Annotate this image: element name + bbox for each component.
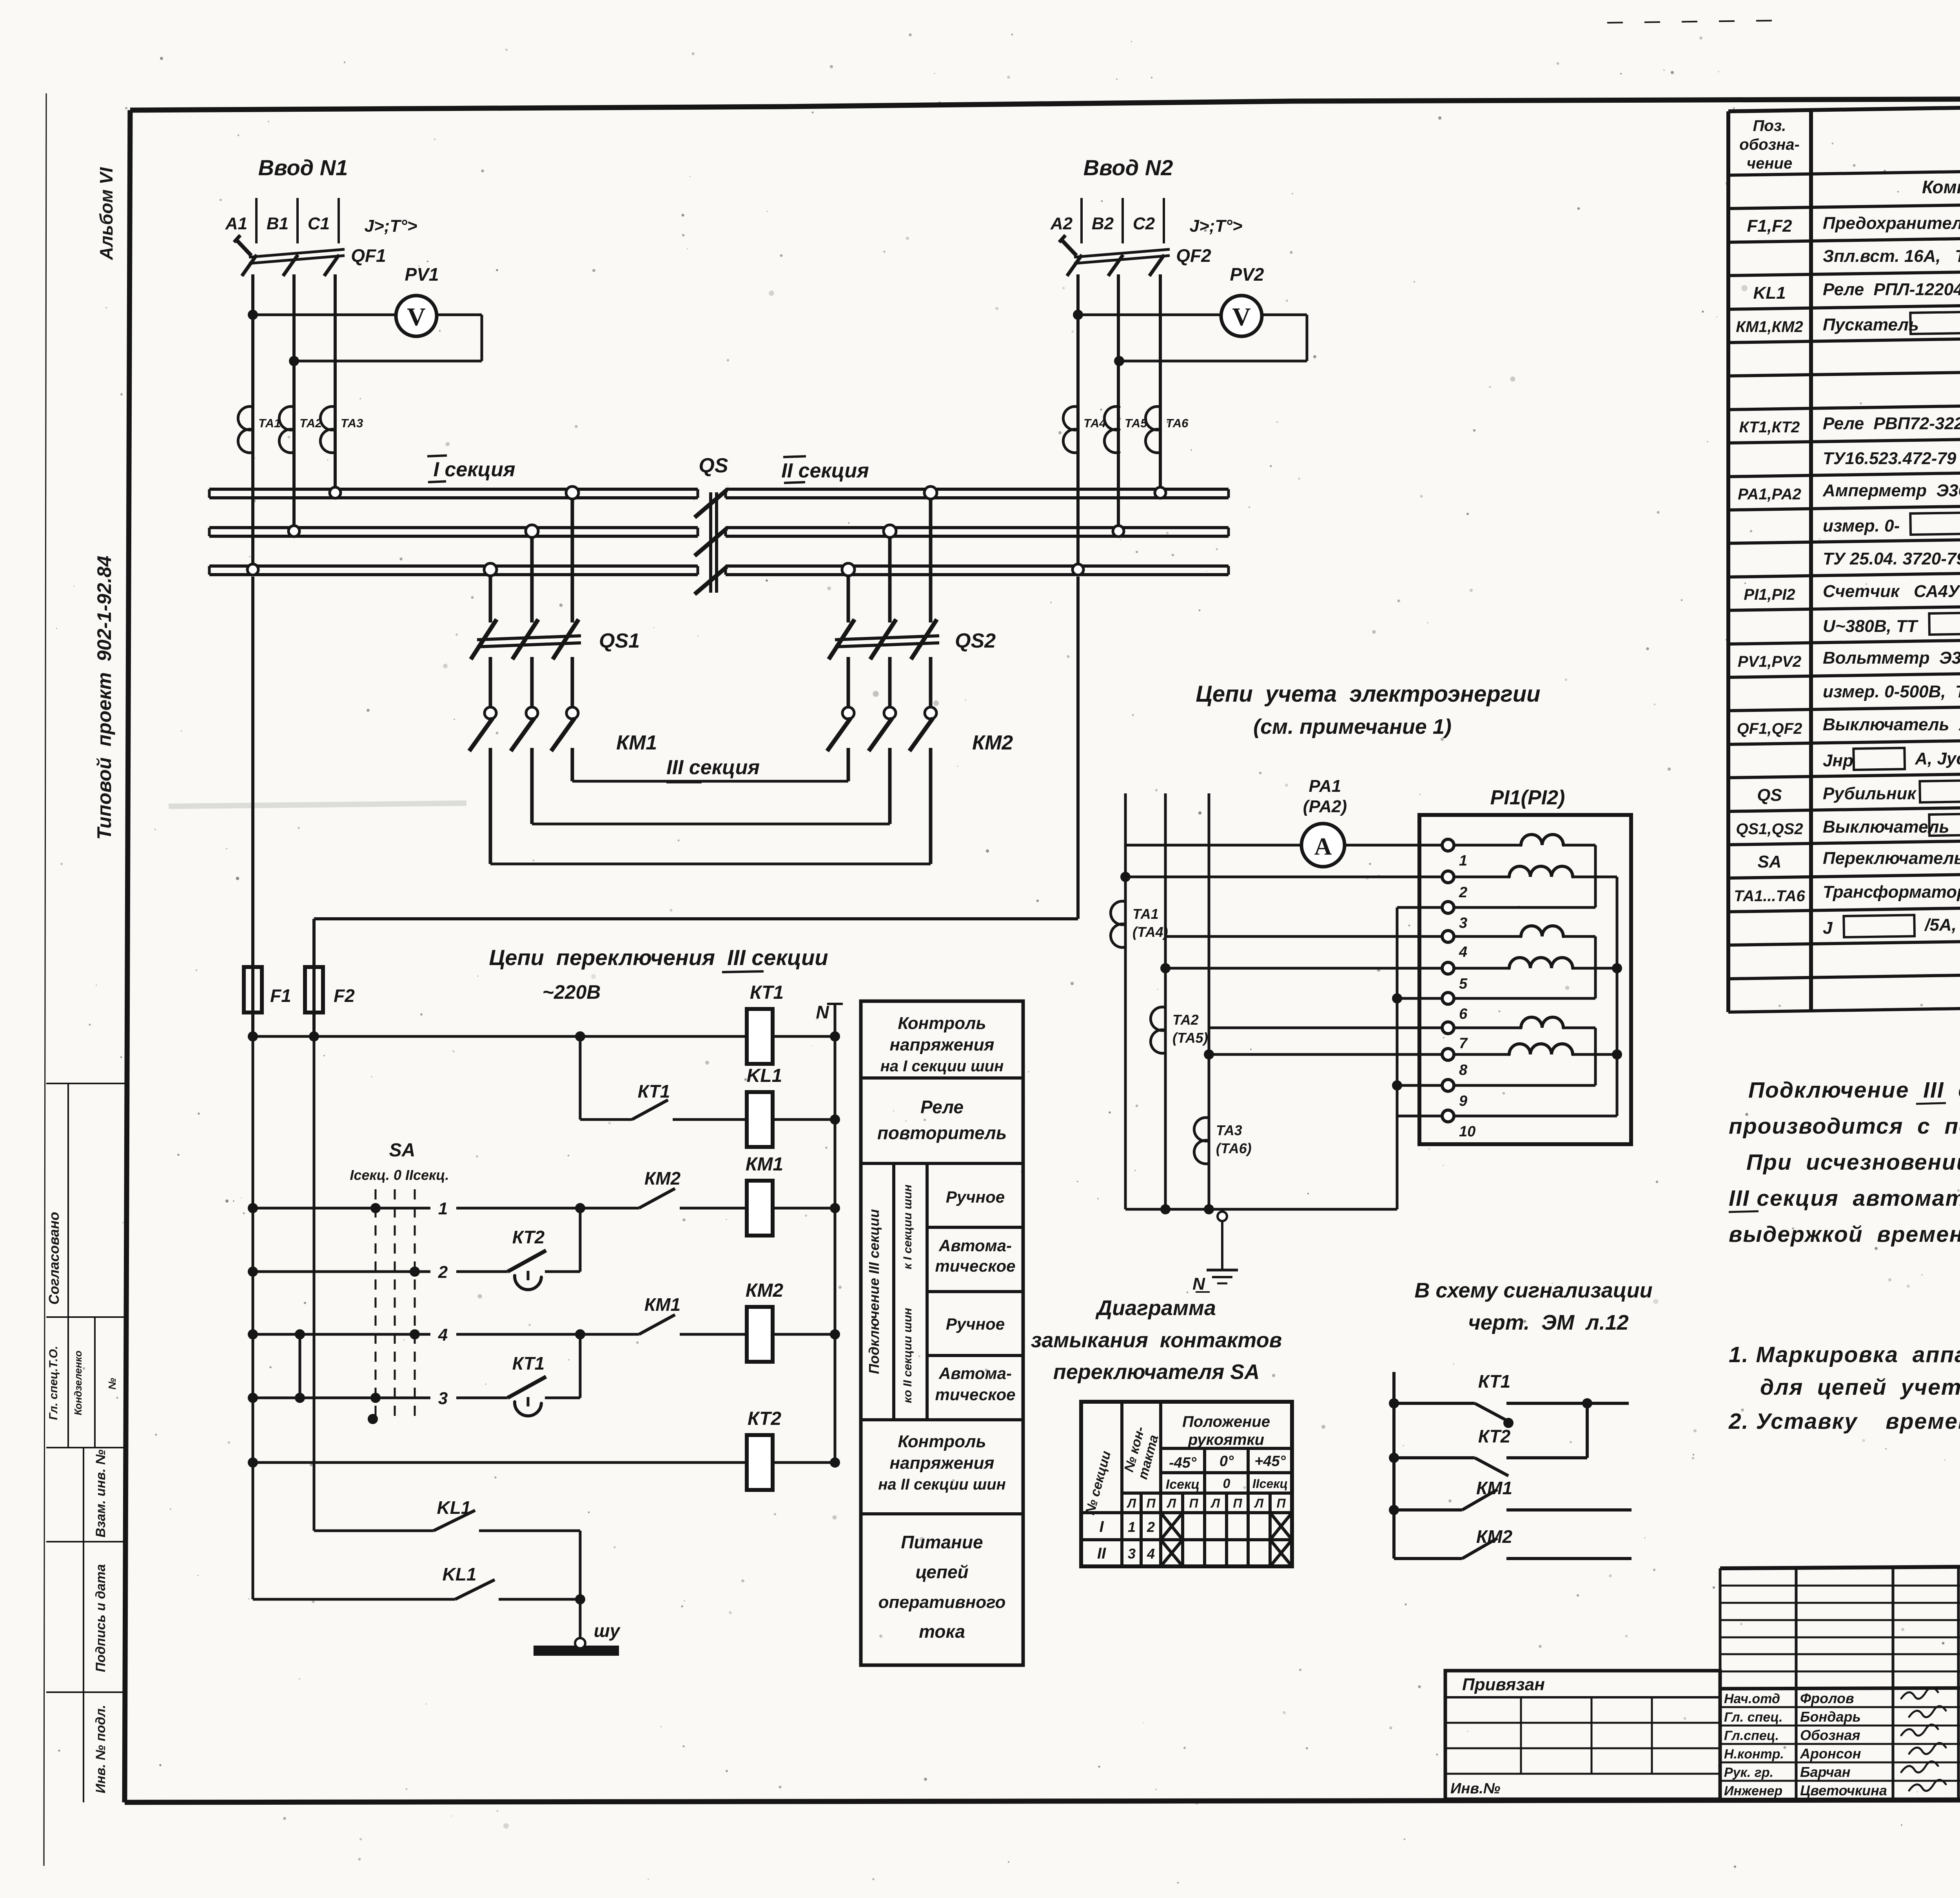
svg-text:KL1: KL1 <box>1753 283 1786 303</box>
svg-text:КТ1: КТ1 <box>750 982 784 1003</box>
svg-text:Амперметр Э365, кл. 1,5; пр: Амперметр Э365, кл. 1,5; предел <box>1822 481 1960 500</box>
svg-text:Цветочкина: Цветочкина <box>1800 1782 1887 1798</box>
svg-text:Ручное: Ручное <box>946 1315 1005 1333</box>
svg-text:QS: QS <box>1757 786 1782 805</box>
svg-text:КТ2: КТ2 <box>1478 1426 1511 1446</box>
svg-text:KL1: KL1 <box>437 1497 471 1518</box>
svg-text:V: V <box>407 303 426 331</box>
svg-text:1: 1 <box>438 1199 448 1218</box>
svg-text:Контроль: Контроль <box>898 1432 986 1451</box>
svg-text:Комплектное устройство: Комплектное устройство <box>1922 177 1960 197</box>
svg-text:обозна-: обозна- <box>1739 136 1800 153</box>
svg-text:QS: QS <box>699 454 728 477</box>
svg-text:С1: С1 <box>308 214 330 233</box>
svg-text:1. Маркировка аппаратов: 1. Маркировка аппаратов <box>1729 1342 1960 1367</box>
svg-text:Питание: Питание <box>901 1532 983 1552</box>
svg-text:Реле РВП72-3222-00УХЛ4, U~2: Реле РВП72-3222-00УХЛ4, U~220В, <box>1823 414 1960 433</box>
svg-text:2: 2 <box>1459 884 1467 901</box>
svg-text:Диаграмма: Диаграмма <box>1095 1296 1216 1320</box>
svg-text:4: 4 <box>438 1325 448 1345</box>
svg-text:(ТА6): (ТА6) <box>1216 1140 1252 1156</box>
svg-text:шу: шу <box>594 1620 621 1641</box>
svg-text:(ТА4): (ТА4) <box>1132 924 1168 940</box>
svg-text:Рук. гр.: Рук. гр. <box>1724 1765 1773 1780</box>
svg-text:Л: Л <box>1127 1496 1136 1510</box>
svg-text:(РА2): (РА2) <box>1303 797 1347 816</box>
svg-text:Jнр: Jнр <box>1823 751 1853 770</box>
svg-text:Ввод N2: Ввод N2 <box>1083 155 1173 180</box>
svg-text:Л: Л <box>1167 1496 1176 1510</box>
svg-text:производится с помощью пере: производится с помощью переключателя SA. <box>1729 1114 1960 1139</box>
svg-text:В схему сигнализации: В схему сигнализации <box>1414 1279 1652 1302</box>
svg-text:Переключатель УП5311-С225У3,ТУ: Переключатель УП5311-С225У3,ТУ16.524.074… <box>1823 849 1960 868</box>
svg-text:напряжения: напряжения <box>890 1453 995 1473</box>
svg-text:V: V <box>1232 303 1251 331</box>
svg-text:рукоятки: рукоятки <box>1188 1431 1264 1448</box>
svg-text:С2: С2 <box>1133 214 1155 233</box>
svg-text:QS1,QS2: QS1,QS2 <box>1736 820 1803 838</box>
svg-text:Подпись и дата: Подпись и дата <box>93 1564 108 1672</box>
svg-text:В2: В2 <box>1092 214 1114 233</box>
svg-text:F2: F2 <box>334 985 355 1006</box>
svg-text:Инв. № подл.: Инв. № подл. <box>93 1705 108 1793</box>
svg-text:Положение: Положение <box>1182 1413 1270 1430</box>
svg-text:тическое: тическое <box>935 1385 1015 1404</box>
svg-text:Л: Л <box>1210 1496 1220 1510</box>
svg-text:Привязан: Привязан <box>1462 1675 1545 1694</box>
svg-text:РА1: РА1 <box>1309 777 1341 796</box>
svg-text:КМ1: КМ1 <box>1476 1478 1512 1498</box>
svg-text:Гл. спец.: Гл. спец. <box>1724 1710 1783 1725</box>
svg-text:PI1,PI2: PI1,PI2 <box>1744 586 1795 603</box>
svg-text:Барчан: Барчан <box>1800 1764 1851 1780</box>
svg-text:Ввод N1: Ввод N1 <box>258 155 348 180</box>
svg-text:Контроль: Контроль <box>898 1014 986 1033</box>
svg-text:КТ1,КТ2: КТ1,КТ2 <box>1739 419 1800 436</box>
svg-text:ТА1: ТА1 <box>1132 906 1159 922</box>
svg-text:ТА3: ТА3 <box>341 416 363 430</box>
svg-text:10: 10 <box>1459 1123 1475 1140</box>
svg-text:переключателя SA: переключателя SA <box>1053 1360 1260 1384</box>
svg-text:Вольтметр Э365, кл. 1,5, пре: Вольтметр Э365, кл. 1,5, предел <box>1823 648 1960 668</box>
svg-text:Ручное: Ручное <box>946 1188 1005 1206</box>
svg-text:Счетчик СА4У-И672М, кл.2,: Счетчик СА4У-И672М, кл.2, <box>1823 582 1960 601</box>
svg-text:Реле РПЛ-12204, U~220В,ТУ16.5: Реле РПЛ-12204, U~220В,ТУ16.523554-78 <box>1823 280 1960 299</box>
svg-text:Автома-: Автома- <box>938 1364 1012 1383</box>
svg-text:П: П <box>1189 1496 1198 1510</box>
svg-text:F1,F2: F1,F2 <box>1747 216 1792 236</box>
svg-text:Iсекц: Iсекц <box>1166 1477 1200 1492</box>
svg-text:PI1(PI2): PI1(PI2) <box>1490 786 1565 809</box>
svg-text:В1: В1 <box>267 214 289 233</box>
svg-text:3: 3 <box>1459 915 1467 931</box>
svg-text:0°: 0° <box>1220 1453 1234 1470</box>
svg-text:U~380В, ТТ: U~380В, ТТ <box>1823 617 1922 636</box>
svg-text:J>;T°>: J>;T°> <box>365 216 417 236</box>
svg-text:I: I <box>1099 1518 1104 1535</box>
svg-text:4: 4 <box>1147 1546 1155 1562</box>
svg-text:для цепей учета электроэнер: для цепей учета электроэнергии Ввода N2. <box>1760 1375 1960 1400</box>
svg-text:замыкания контактов: замыкания контактов <box>1031 1328 1282 1352</box>
svg-text:КТ2: КТ2 <box>512 1227 545 1247</box>
svg-text:ТА3: ТА3 <box>1216 1122 1242 1138</box>
svg-text:П: П <box>1233 1496 1242 1510</box>
svg-text:Альбом VI: Альбом VI <box>96 167 116 260</box>
svg-text:PV1,PV2: PV1,PV2 <box>1738 653 1801 670</box>
svg-text:I секция: I секция <box>433 458 515 481</box>
svg-text:F1: F1 <box>270 985 291 1006</box>
svg-text:III секция: III секция <box>666 756 760 779</box>
svg-text:ТА2: ТА2 <box>299 416 322 430</box>
svg-text:QS2: QS2 <box>955 630 996 652</box>
svg-text:J>;T°>: J>;T°> <box>1190 216 1243 236</box>
svg-text:П: П <box>1146 1496 1156 1510</box>
svg-text:КМ1,КМ2: КМ1,КМ2 <box>1736 318 1803 336</box>
svg-text:КМ2: КМ2 <box>746 1280 783 1301</box>
svg-text:ко II секции шин: ко II секции шин <box>901 1308 914 1403</box>
svg-text:Гл. спец.Т.О.: Гл. спец.Т.О. <box>47 1346 60 1420</box>
svg-text:Нач.отд: Нач.отд <box>1724 1691 1780 1706</box>
svg-text:N: N <box>1192 1274 1205 1294</box>
svg-text:оперативного: оперативного <box>878 1593 1006 1612</box>
svg-text:напряжения: напряжения <box>890 1035 995 1054</box>
svg-text:KL1: KL1 <box>747 1065 782 1086</box>
svg-text:Инженер: Инженер <box>1724 1784 1782 1798</box>
svg-text:Поз.: Поз. <box>1753 117 1786 134</box>
svg-text:Iсекц. 0 IIсекц.: Iсекц. 0 IIсекц. <box>350 1167 449 1183</box>
svg-text:Подключение III секции к о: Подключение III секции к одной из секций… <box>1748 1078 1960 1103</box>
svg-text:Фролов: Фролов <box>1800 1690 1854 1706</box>
svg-text:QF2: QF2 <box>1176 245 1211 266</box>
svg-text:~220В: ~220В <box>543 981 601 1003</box>
svg-text:QF1: QF1 <box>351 245 386 266</box>
svg-text:ТА1...ТА6: ТА1...ТА6 <box>1734 887 1805 905</box>
svg-text:8: 8 <box>1459 1062 1468 1078</box>
svg-text:Рубильник: Рубильник <box>1823 784 1921 803</box>
svg-text:повторитель: повторитель <box>877 1123 1007 1143</box>
svg-text:КТ2: КТ2 <box>748 1408 781 1429</box>
svg-text:2. Уставку времени реле КТ: 2. Уставку времени реле КТ1 и КТ2 принят… <box>1728 1409 1960 1434</box>
svg-text:Зпл.вст. 16А, ТУ16.522.112-7: Зпл.вст. 16А, ТУ16.522.112-74 <box>1823 247 1960 266</box>
svg-text:Н.контр.: Н.контр. <box>1724 1747 1784 1762</box>
svg-text:Типовой проект 902-1-92.84: Типовой проект 902-1-92.84 <box>93 556 115 840</box>
svg-text:А, Jуст: А, Jуст <box>1910 749 1960 768</box>
svg-text:выдержкой времени на питани: выдержкой времени на питание от другой с… <box>1729 1222 1960 1247</box>
svg-text:измер. 0-: измер. 0- <box>1823 516 1900 535</box>
svg-text:на II секции шин: на II секции шин <box>878 1476 1006 1493</box>
svg-text:1: 1 <box>1128 1519 1136 1535</box>
svg-text:Инв.№: Инв.№ <box>1450 1780 1500 1797</box>
svg-text:№: № <box>106 1378 118 1390</box>
svg-text:Гл.спец.: Гл.спец. <box>1724 1728 1779 1743</box>
svg-text:II: II <box>1097 1545 1106 1562</box>
svg-text:III секция автоматически пер: III секция автоматически переключается с <box>1729 1186 1960 1211</box>
svg-text:черт. ЭМ л.12: черт. ЭМ л.12 <box>1468 1311 1628 1334</box>
svg-text:РА1,РА2: РА1,РА2 <box>1738 486 1801 503</box>
svg-text:QF1,QF2: QF1,QF2 <box>1737 720 1802 737</box>
svg-text:КМ1: КМ1 <box>616 731 657 754</box>
svg-text:КТ1: КТ1 <box>1478 1371 1511 1392</box>
svg-text:SA: SA <box>389 1140 416 1161</box>
svg-text:ТУ16.523.472-79: ТУ16.523.472-79 <box>1823 449 1956 468</box>
svg-text:Пускатель: Пускатель <box>1823 315 1919 334</box>
svg-text:SA: SA <box>1757 852 1781 871</box>
svg-text:ТА6: ТА6 <box>1166 416 1189 430</box>
svg-text:Автома-: Автома- <box>938 1236 1012 1255</box>
svg-text:КТ1: КТ1 <box>638 1081 670 1101</box>
svg-text:PV2: PV2 <box>1230 264 1264 285</box>
svg-text:КМ2: КМ2 <box>972 731 1013 754</box>
svg-text:к I секции шин: к I секции шин <box>901 1185 914 1269</box>
svg-text:П: П <box>1276 1496 1286 1510</box>
svg-text:9: 9 <box>1459 1093 1467 1109</box>
svg-text:Цепи учета электроэнергии: Цепи учета электроэнергии <box>1196 681 1540 707</box>
svg-text:КМ2: КМ2 <box>644 1168 681 1189</box>
svg-text:Обозная: Обозная <box>1800 1727 1860 1743</box>
svg-text:3: 3 <box>1128 1546 1136 1562</box>
svg-text:тическое: тическое <box>935 1257 1015 1275</box>
svg-text:(ТА5): (ТА5) <box>1172 1030 1208 1046</box>
svg-text:2: 2 <box>438 1263 448 1282</box>
svg-text:3: 3 <box>438 1389 448 1408</box>
svg-text:J: J <box>1823 918 1837 938</box>
svg-text:PV1: PV1 <box>405 264 439 285</box>
svg-text:Аронсон: Аронсон <box>1800 1746 1861 1762</box>
svg-text:ТА1: ТА1 <box>258 416 281 430</box>
svg-text:II секция: II секция <box>781 459 869 482</box>
svg-text:А1: А1 <box>225 214 247 233</box>
svg-text:чение: чение <box>1747 155 1792 172</box>
svg-text:на I секции шин: на I секции шин <box>880 1058 1004 1075</box>
svg-text:KL1: KL1 <box>443 1564 477 1584</box>
svg-text:A: A <box>1314 833 1332 860</box>
svg-text:5: 5 <box>1459 976 1468 992</box>
svg-text:ТА5: ТА5 <box>1125 416 1147 430</box>
svg-text:КМ1: КМ1 <box>644 1294 681 1315</box>
svg-text:цепей: цепей <box>915 1562 968 1582</box>
svg-text:КТ1: КТ1 <box>512 1353 545 1374</box>
svg-text:Трансформатор тока ТК-20: Трансформатор тока ТК-20-0,5У3, <box>1823 882 1960 902</box>
svg-text:А2: А2 <box>1050 214 1073 233</box>
svg-text:ТУ 25.04. 3720-79: ТУ 25.04. 3720-79 <box>1823 549 1960 568</box>
svg-text:(см. примечание 1): (см. примечание 1) <box>1253 715 1452 739</box>
svg-text:Реле: Реле <box>920 1097 964 1117</box>
svg-text:Подключение III секции: Подключение III секции <box>866 1209 882 1374</box>
svg-text:При исчезновении напряжения: При исчезновении напряжения на этой секц… <box>1746 1150 1960 1175</box>
svg-text:IIсекц: IIсекц <box>1252 1477 1288 1491</box>
svg-text:7: 7 <box>1459 1035 1468 1052</box>
svg-text:ТА4: ТА4 <box>1083 416 1106 430</box>
svg-text:тока: тока <box>919 1621 965 1642</box>
svg-text:2: 2 <box>1147 1519 1155 1535</box>
svg-text:Л: Л <box>1254 1496 1264 1510</box>
svg-text:4: 4 <box>1459 944 1467 960</box>
svg-text:КМ1: КМ1 <box>746 1154 783 1175</box>
svg-text:QS1: QS1 <box>599 630 640 652</box>
svg-text:Выключатель А3716ФУ3,U~380В,J: Выключатель А3716ФУ3,U~380В,Jн 160А, <box>1823 715 1960 734</box>
svg-text:измер. 0-500В, ТУ25.04.3720-7: измер. 0-500В, ТУ25.04.3720-79 <box>1823 682 1960 701</box>
svg-text:6: 6 <box>1459 1006 1468 1022</box>
svg-text:-45°: -45° <box>1169 1455 1197 1471</box>
svg-text:Цепи переключения III секции: Цепи переключения III секции <box>489 945 828 970</box>
svg-text:Кондзеленко: Кондзеленко <box>72 1350 84 1415</box>
svg-text:Согласовано: Согласовано <box>46 1212 62 1305</box>
svg-text:+45°: +45° <box>1254 1453 1286 1470</box>
svg-text:Бондарь: Бондарь <box>1800 1709 1861 1725</box>
svg-text:Взам. инв. №: Взам. инв. № <box>93 1450 108 1538</box>
svg-text:/5А, ТУ16.517.442-75: /5А, ТУ16.517.442-75 <box>1920 915 1960 934</box>
svg-text:Предохранитель ПРС-25У3-П,: Предохранитель ПРС-25У3-П, <box>1823 214 1960 233</box>
svg-text:0: 0 <box>1223 1476 1230 1491</box>
svg-text:1: 1 <box>1459 853 1467 869</box>
svg-text:КМ2: КМ2 <box>1476 1526 1513 1547</box>
svg-text:ТА2: ТА2 <box>1172 1012 1199 1028</box>
